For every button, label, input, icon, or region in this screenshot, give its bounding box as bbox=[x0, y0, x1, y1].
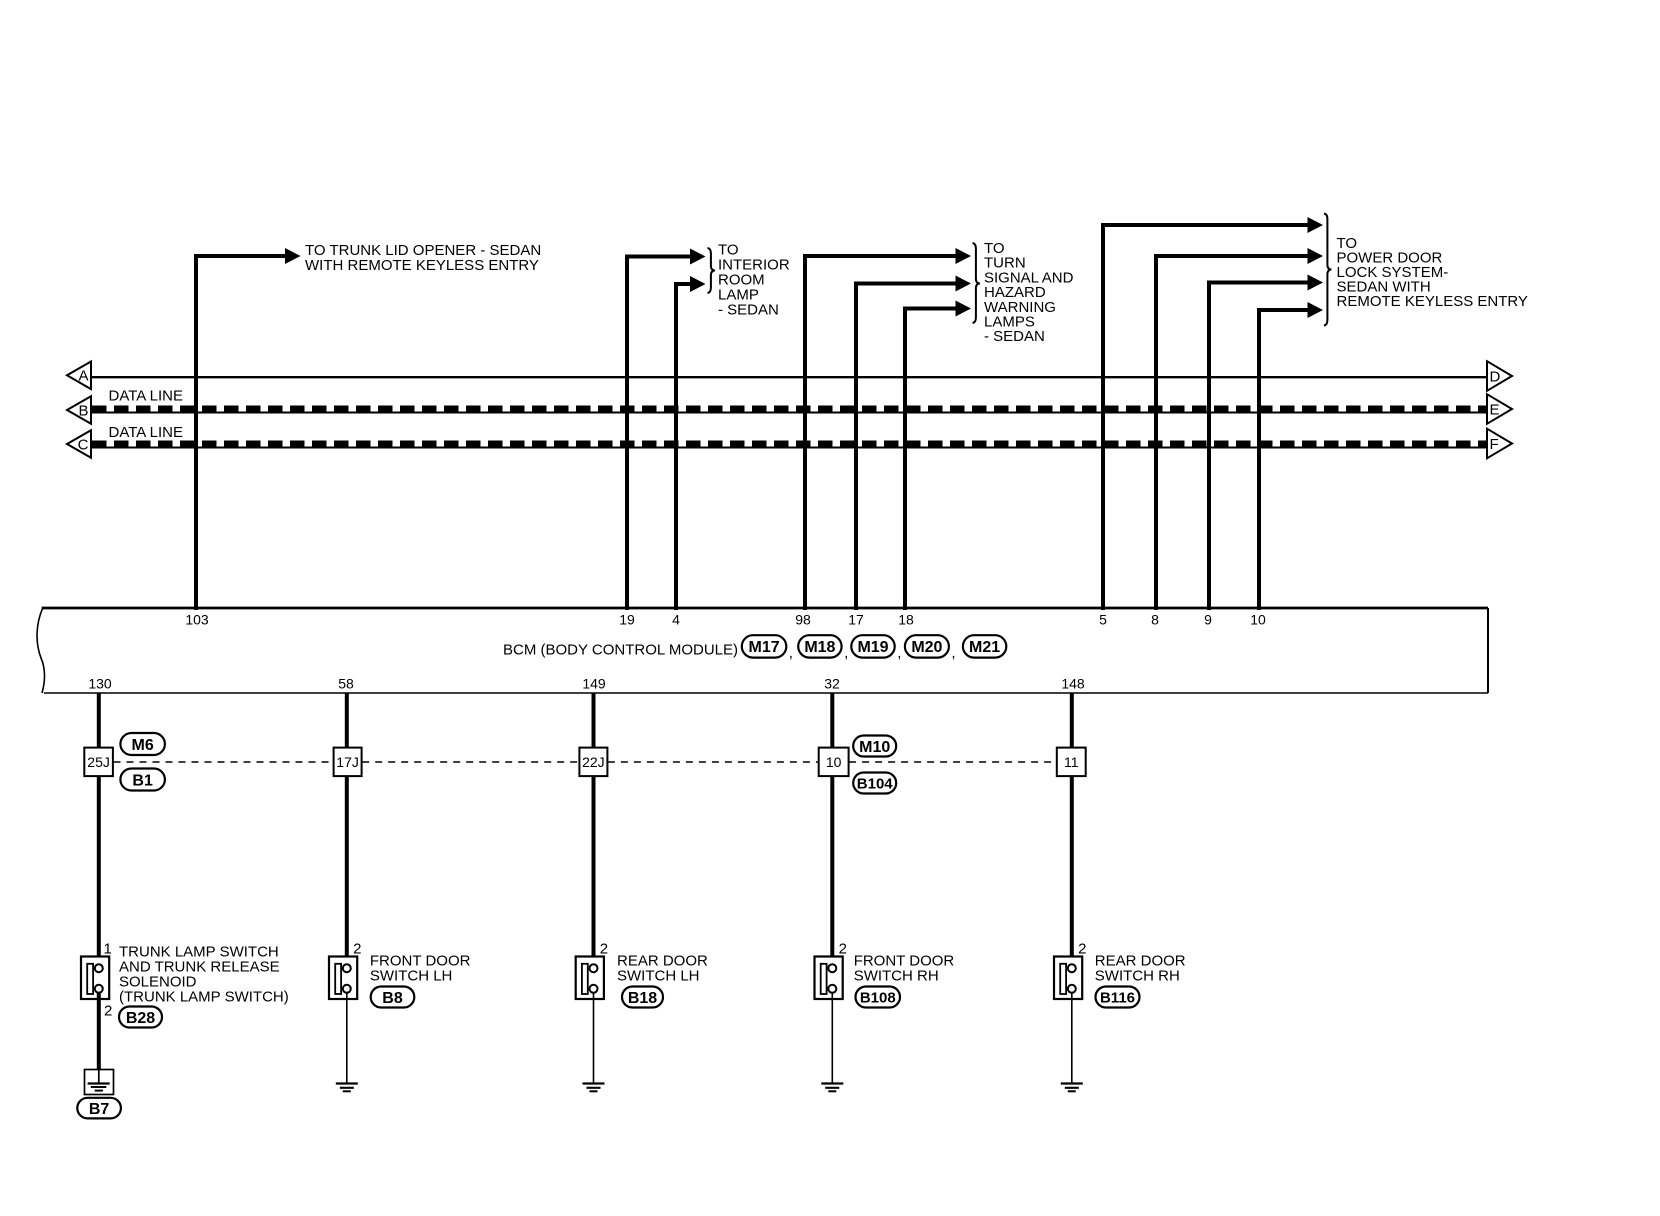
ground symbol (front door switch lh) bbox=[336, 1084, 358, 1092]
front door switch lh (symbol, pin 2) bbox=[329, 940, 361, 999]
svg-text:,: , bbox=[789, 645, 793, 662]
wire BCM pin 58 down to junction box bbox=[345, 693, 349, 749]
label TRUNK LAMP SWITCH AND TRUNK RELEASE SOLENOID (TRUNK LAMP SWITCH) bbox=[119, 943, 289, 1005]
connector oval B7 bbox=[77, 1098, 121, 1119]
svg-text:2: 2 bbox=[104, 1003, 112, 1020]
wire from BCM pin 17 up-right to turn signal arrow 2 bbox=[856, 284, 956, 611]
svg-text:2: 2 bbox=[1078, 940, 1086, 957]
svg-text:2: 2 bbox=[839, 940, 847, 957]
trunk lamp switch and trunk release solenoid (symbol, pins 1/2) bbox=[81, 940, 112, 999]
label FRONT DOOR SWITCH LH bbox=[370, 953, 471, 985]
svg-text:8: 8 bbox=[1151, 611, 1159, 627]
connector oval B116 bbox=[1096, 987, 1140, 1008]
svg-text:2: 2 bbox=[600, 940, 608, 957]
svg-text:10: 10 bbox=[1250, 611, 1266, 627]
svg-text:148: 148 bbox=[1061, 675, 1085, 691]
svg-text:B104: B104 bbox=[857, 776, 894, 793]
svg-text:C: C bbox=[78, 436, 89, 453]
wire BCM pin 148 down to junction box bbox=[1070, 693, 1074, 749]
arrowhead turn signal 1 bbox=[956, 248, 972, 264]
wire junction box down to switch (column 3) bbox=[592, 776, 596, 964]
svg-text:2: 2 bbox=[353, 940, 361, 957]
arrowhead power door lock 2 bbox=[1308, 248, 1324, 264]
junction box 11 bbox=[1057, 748, 1086, 777]
svg-text:149: 149 bbox=[582, 675, 606, 691]
svg-text:17J: 17J bbox=[336, 754, 359, 770]
svg-text:,: , bbox=[897, 645, 901, 662]
wire B8 switch down to ground bbox=[346, 993, 348, 1083]
svg-text:- SEDAN: - SEDAN bbox=[718, 302, 779, 319]
node C (left connector triangle) bbox=[67, 430, 91, 458]
svg-text:10: 10 bbox=[826, 754, 842, 770]
front door switch rh (symbol, pin 2) bbox=[815, 940, 847, 999]
wire data line C (dashed) bbox=[91, 444, 1487, 448]
ground symbol (rear door switch lh) bbox=[583, 1084, 605, 1092]
wire from BCM pin 9 up-right to power door lock arrow 3 bbox=[1209, 283, 1308, 611]
connector oval M19 bbox=[851, 635, 894, 657]
svg-text:SWITCH RH: SWITCH RH bbox=[1095, 968, 1180, 985]
arrowhead interior room lamp 1 bbox=[690, 249, 706, 265]
connector oval M10 bbox=[853, 736, 896, 757]
svg-text:D: D bbox=[1490, 368, 1501, 385]
svg-text:M20: M20 bbox=[911, 639, 942, 656]
node B (left connector triangle) bbox=[67, 396, 91, 424]
svg-text:DATA LINE: DATA LINE bbox=[109, 387, 183, 404]
brace for interior room lamp group bbox=[708, 248, 715, 293]
svg-text:M17: M17 bbox=[748, 639, 779, 656]
connector oval M20 bbox=[905, 635, 949, 657]
svg-text:130: 130 bbox=[88, 675, 112, 691]
svg-text:BCM (BODY CONTROL MODULE): BCM (BODY CONTROL MODULE) bbox=[503, 642, 738, 659]
svg-text:32: 32 bbox=[824, 675, 840, 691]
svg-text:25J: 25J bbox=[87, 754, 110, 770]
svg-text:B: B bbox=[78, 402, 88, 419]
wire data line A (solid) bbox=[91, 376, 1487, 378]
arrowhead to trunk lid opener bbox=[285, 248, 301, 264]
svg-text:98: 98 bbox=[795, 611, 811, 627]
node F (right connector triangle) bbox=[1487, 429, 1512, 459]
ground symbol (rear door switch rh) bbox=[1061, 1084, 1083, 1092]
label FRONT DOOR SWITCH RH bbox=[854, 953, 955, 985]
wire BCM pin 130 down to junction box bbox=[97, 693, 101, 749]
junction box 17J bbox=[334, 748, 362, 777]
svg-text:B8: B8 bbox=[382, 990, 403, 1007]
svg-text:,: , bbox=[844, 645, 848, 662]
ground symbol (front door switch rh) bbox=[821, 1084, 843, 1092]
svg-text:B28: B28 bbox=[126, 1010, 155, 1027]
svg-text:M10: M10 bbox=[859, 739, 890, 756]
wire junction box down to switch (column 5) bbox=[1070, 776, 1074, 964]
svg-text:- SEDAN: - SEDAN bbox=[984, 328, 1045, 345]
svg-text:A: A bbox=[78, 368, 88, 385]
wire data line B (dashed) bbox=[91, 409, 1487, 413]
connector oval B8 bbox=[371, 987, 415, 1008]
svg-text:SWITCH LH: SWITCH LH bbox=[370, 968, 453, 985]
svg-text:M21: M21 bbox=[969, 639, 1000, 656]
svg-text:F: F bbox=[1490, 436, 1499, 453]
arrowhead power door lock 1 bbox=[1308, 217, 1324, 233]
svg-text:B18: B18 bbox=[628, 990, 657, 1007]
arrowhead turn signal 2 bbox=[956, 276, 972, 292]
svg-text:SWITCH RH: SWITCH RH bbox=[854, 968, 939, 985]
label REAR DOOR SWITCH LH bbox=[617, 953, 708, 985]
svg-text:DATA LINE: DATA LINE bbox=[109, 424, 183, 441]
wire junction box down to switch (column 4) bbox=[830, 776, 834, 964]
wire from BCM pin 5 up-right to power door lock arrow 1 bbox=[1103, 225, 1308, 610]
arrowhead interior room lamp 2 bbox=[690, 276, 706, 292]
svg-text:103: 103 bbox=[185, 611, 209, 627]
svg-text:9: 9 bbox=[1204, 611, 1212, 627]
rear door switch rh (symbol, pin 2) bbox=[1054, 940, 1086, 999]
connector oval B18 bbox=[622, 987, 663, 1008]
node A (left connector triangle) bbox=[67, 362, 91, 390]
connector oval M21 bbox=[963, 635, 1006, 657]
junction box 25J bbox=[84, 748, 113, 777]
node E (right connector triangle) bbox=[1487, 394, 1512, 424]
connector oval B108 bbox=[856, 987, 901, 1008]
svg-text:11: 11 bbox=[1064, 754, 1079, 770]
svg-text:E: E bbox=[1490, 401, 1500, 418]
svg-text:,: , bbox=[951, 645, 955, 662]
wire B116 switch down to ground bbox=[1071, 993, 1073, 1083]
svg-text:M19: M19 bbox=[857, 639, 888, 656]
brace for turn signal group bbox=[973, 243, 980, 323]
node D (right connector triangle) bbox=[1487, 361, 1512, 391]
svg-text:M18: M18 bbox=[804, 639, 835, 656]
svg-text:B7: B7 bbox=[89, 1101, 110, 1118]
svg-text:17: 17 bbox=[848, 611, 864, 627]
wire BCM pin 149 down to junction box bbox=[592, 693, 596, 749]
svg-text:B116: B116 bbox=[1100, 990, 1135, 1007]
wire dashed harness link (junction row) bbox=[114, 761, 1057, 763]
svg-text:58: 58 bbox=[338, 675, 354, 691]
svg-text:REMOTE KEYLESS ENTRY: REMOTE KEYLESS ENTRY bbox=[1337, 293, 1528, 310]
wire from BCM pin 8 up-right to power door lock arrow 2 bbox=[1156, 256, 1308, 610]
wire from BCM pin 18 up-right to turn signal arrow 3 bbox=[905, 309, 956, 611]
wire trunk switch pin 2 down to ground box bbox=[97, 993, 101, 1071]
wire B108 switch down to ground bbox=[831, 993, 833, 1083]
arrowhead turn signal 3 bbox=[956, 301, 972, 317]
svg-text:1: 1 bbox=[104, 940, 112, 957]
label REAR DOOR SWITCH RH bbox=[1095, 953, 1186, 985]
svg-text:22J: 22J bbox=[582, 754, 605, 770]
brace for power door lock group bbox=[1324, 214, 1331, 326]
wire from BCM pin 98 up-right to turn signal arrow 1 bbox=[805, 256, 956, 610]
connector oval B28 bbox=[119, 1007, 162, 1028]
svg-text:WITH REMOTE KEYLESS ENTRY: WITH REMOTE KEYLESS ENTRY bbox=[305, 257, 539, 274]
wire B18 switch down to ground bbox=[593, 993, 595, 1083]
arrowhead power door lock 4 bbox=[1308, 302, 1324, 318]
label TO TRUNK LID OPENER - SEDAN WITH REMOTE KEYLESS ENTRY bbox=[305, 242, 541, 274]
connector oval M18 bbox=[798, 635, 841, 657]
arrowhead power door lock 3 bbox=[1308, 275, 1324, 291]
svg-text:SWITCH LH: SWITCH LH bbox=[617, 968, 700, 985]
label TO POWER DOOR LOCK SYSTEM - SEDAN WITH REMOTE KEYLESS ENTRY bbox=[1337, 235, 1528, 310]
wire from BCM pin 103 up-right to trunk lid opener arrow bbox=[196, 256, 285, 610]
wire from BCM pin 4 up-right to interior room lamp arrow 2 bbox=[676, 284, 690, 610]
svg-text:5: 5 bbox=[1099, 611, 1107, 627]
wire junction box down to switch (column 1) bbox=[97, 776, 101, 964]
connector oval B1 bbox=[120, 769, 164, 791]
connector oval M6 bbox=[120, 733, 164, 755]
svg-text:B108: B108 bbox=[860, 990, 896, 1007]
wire BCM pin 32 down to junction box bbox=[830, 693, 834, 749]
connector oval B104 bbox=[853, 773, 896, 794]
BCM (Body Control Module) box bbox=[37, 608, 1488, 693]
svg-text:B1: B1 bbox=[132, 772, 153, 789]
junction box 10 bbox=[819, 748, 849, 777]
svg-text:19: 19 bbox=[619, 611, 635, 627]
svg-text:4: 4 bbox=[672, 611, 680, 627]
label TO INTERIOR ROOM LAMP - SEDAN bbox=[718, 242, 790, 319]
ground box (trunk harness ground) bbox=[85, 1070, 114, 1095]
wire from BCM pin 19 up-right to interior room lamp arrow 1 bbox=[627, 257, 690, 611]
wire from BCM pin 10 up-right to power door lock arrow 4 bbox=[1259, 310, 1308, 610]
wire junction box down to switch (column 2) bbox=[345, 776, 349, 964]
connector oval M17 bbox=[742, 635, 787, 657]
svg-text:M6: M6 bbox=[132, 737, 154, 754]
rear door switch lh (symbol, pin 2) bbox=[576, 940, 608, 999]
label TO TURN SIGNAL AND HAZARD WARNING LAMPS - SEDAN bbox=[984, 240, 1074, 345]
junction box 22J bbox=[579, 748, 607, 777]
svg-text:18: 18 bbox=[898, 611, 914, 627]
svg-text:(TRUNK LAMP SWITCH): (TRUNK LAMP SWITCH) bbox=[119, 988, 289, 1005]
